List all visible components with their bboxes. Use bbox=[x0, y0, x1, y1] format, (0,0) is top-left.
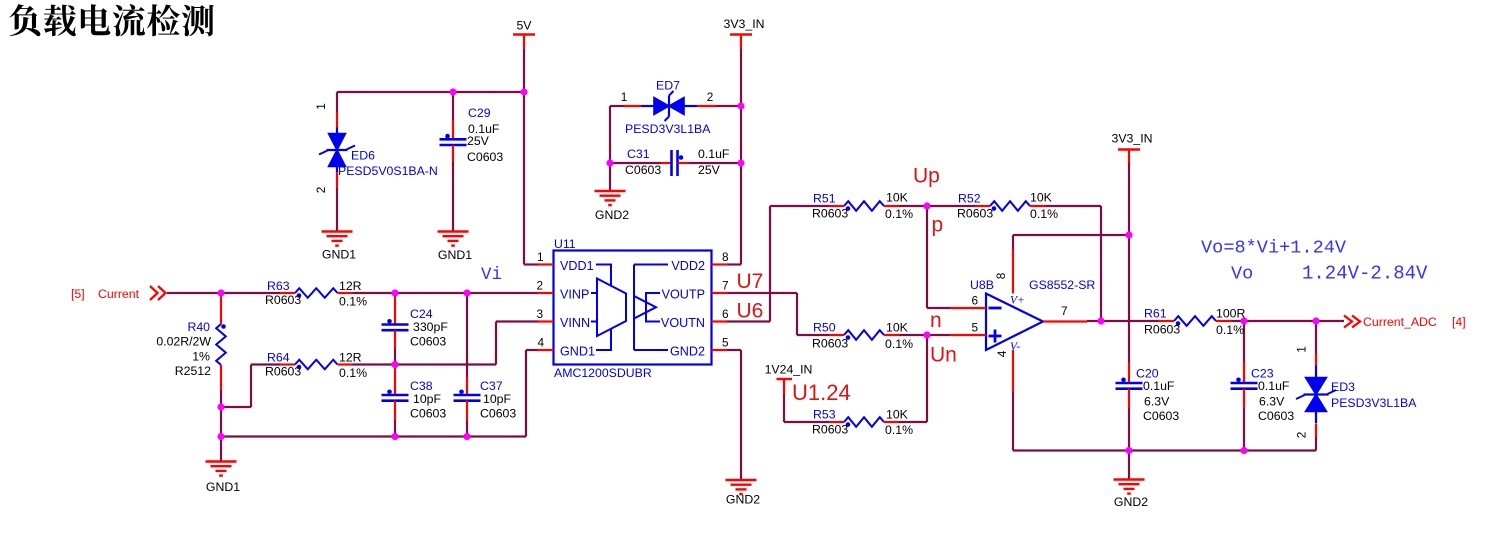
wire GND1 bottom rail bbox=[221, 435, 526, 437]
wire U11 pin5 to GND2 bbox=[727, 349, 741, 351]
svg-text:U7: U7 bbox=[737, 270, 764, 293]
wire R53 to 1V24_IN bbox=[784, 421, 829, 423]
svg-text:10K: 10K bbox=[886, 321, 909, 335]
svg-text:R50: R50 bbox=[813, 321, 836, 335]
ground GND1 under R40 bbox=[220, 437, 222, 462]
svg-text:C37: C37 bbox=[480, 379, 503, 393]
svg-text:VINN: VINN bbox=[560, 316, 590, 330]
resistor R50 bbox=[829, 334, 844, 336]
wire R64 left L bbox=[221, 406, 251, 408]
svg-text:5: 5 bbox=[722, 336, 729, 350]
resistor R61 bbox=[1158, 320, 1174, 322]
svg-text:GND1: GND1 bbox=[206, 480, 240, 494]
svg-text:10pF: 10pF bbox=[413, 392, 442, 406]
svg-text:[4]: [4] bbox=[1452, 315, 1466, 329]
wire R52 row from Up node bbox=[927, 205, 975, 207]
wire opamp pin4 to GND2 rail bbox=[1012, 392, 1014, 451]
capacitor C31 bbox=[661, 162, 672, 164]
wire n node to opamp pin5 bbox=[927, 334, 950, 336]
svg-text:U1.24: U1.24 bbox=[792, 380, 851, 405]
wire ED3 column bbox=[1315, 321, 1317, 353]
svg-text:R0603: R0603 bbox=[812, 423, 848, 437]
svg-text:VDD1: VDD1 bbox=[560, 259, 594, 273]
power 3V3_IN right bbox=[1118, 148, 1140, 151]
svg-text:V+: V+ bbox=[1010, 295, 1025, 307]
wire R52 to feedback drop bbox=[1046, 205, 1101, 207]
svg-text:R0603: R0603 bbox=[812, 207, 848, 221]
svg-text:25V: 25V bbox=[467, 134, 490, 148]
svg-text:2: 2 bbox=[536, 279, 543, 293]
svg-text:PESD3V3L1BA: PESD3V3L1BA bbox=[625, 122, 711, 136]
wire C29 top bbox=[452, 92, 454, 120]
wire ED7 pin1 drop to C31 bbox=[610, 105, 624, 107]
svg-text:GND2: GND2 bbox=[670, 345, 705, 359]
svg-text:[5]: [5] bbox=[71, 287, 85, 301]
svg-text:GND1: GND1 bbox=[438, 248, 472, 262]
svg-text:10K: 10K bbox=[886, 408, 909, 422]
svg-text:C0603: C0603 bbox=[410, 407, 446, 421]
wire R61 to Current_ADC bbox=[1232, 320, 1344, 322]
svg-text:GND2: GND2 bbox=[595, 208, 629, 222]
svg-text:7: 7 bbox=[722, 279, 729, 293]
svg-text:Vi: Vi bbox=[481, 265, 502, 285]
wire U11 pin7 U7 to R50 bbox=[727, 292, 797, 294]
junction n node bbox=[923, 331, 930, 338]
svg-text:3V3_IN: 3V3_IN bbox=[1111, 132, 1152, 146]
wire C24 link bbox=[394, 348, 396, 365]
svg-text:R51: R51 bbox=[813, 192, 836, 206]
svg-text:U8B: U8B bbox=[970, 278, 994, 292]
wire U11 pin6 U6 to R51 bbox=[727, 320, 770, 322]
capacitor C23 bbox=[1243, 362, 1245, 383]
svg-text:R0603: R0603 bbox=[265, 365, 301, 379]
wire Current input to R63 bbox=[167, 292, 280, 294]
svg-text:4: 4 bbox=[537, 336, 544, 350]
svg-text:VDD2: VDD2 bbox=[671, 259, 705, 273]
wire 3V3 to opamp V+ bbox=[1128, 163, 1130, 235]
power 3V3_IN top bbox=[730, 33, 752, 36]
wire ED6 bottom to GND1 bbox=[336, 188, 338, 232]
diode ED3 PESD3V3L1BA bbox=[1315, 353, 1317, 366]
svg-text:0.1%: 0.1% bbox=[885, 337, 913, 351]
svg-text:2: 2 bbox=[707, 90, 714, 104]
svg-text:R64: R64 bbox=[267, 351, 290, 365]
svg-text:6: 6 bbox=[971, 294, 978, 308]
svg-text:VINP: VINP bbox=[560, 288, 589, 302]
svg-text:C0603: C0603 bbox=[410, 335, 446, 349]
diode ED6 PESD5V0S1BA-N bbox=[336, 112, 338, 128]
svg-text:R0603: R0603 bbox=[265, 293, 301, 307]
svg-text:6.3V: 6.3V bbox=[1144, 395, 1170, 409]
svg-text:GS8552-SR: GS8552-SR bbox=[1029, 278, 1095, 292]
port Current_ADC [4] bbox=[1344, 316, 1352, 328]
svg-text:0.1%: 0.1% bbox=[885, 423, 913, 437]
svg-text:1: 1 bbox=[314, 103, 328, 110]
wire 5V vertical to U11 pin1 bbox=[523, 49, 525, 265]
svg-text:R53: R53 bbox=[813, 408, 836, 422]
junction GND2 rail bbox=[1125, 447, 1132, 454]
svg-text:0.02R/2W: 0.02R/2W bbox=[156, 335, 211, 349]
capacitor C38 bbox=[394, 367, 396, 395]
junction 3V3 ED7 bbox=[737, 102, 744, 109]
svg-text:VOUTP: VOUTP bbox=[662, 288, 705, 302]
svg-text:8: 8 bbox=[722, 250, 729, 264]
ground GND2 under opamp rail bbox=[1128, 451, 1130, 480]
ground GND2 under C31 bbox=[595, 190, 626, 192]
svg-text:R52: R52 bbox=[958, 192, 981, 206]
wire R50 to n node bbox=[899, 334, 927, 336]
wire 3V3_IN drop to ED7 pin2 bbox=[740, 49, 742, 106]
wire R40 bottom bbox=[220, 390, 222, 437]
svg-text:1%: 1% bbox=[192, 350, 210, 364]
wire R51 to Up node bbox=[899, 205, 927, 207]
op-amp U8B GS8552-SR bbox=[986, 294, 1043, 351]
svg-text:GND1: GND1 bbox=[322, 248, 356, 262]
svg-text:ED6: ED6 bbox=[351, 149, 375, 163]
svg-text:10K: 10K bbox=[886, 191, 909, 205]
power 1V24_IN bbox=[777, 378, 793, 381]
junction R40 bottom bbox=[217, 403, 224, 410]
svg-text:0.1%: 0.1% bbox=[885, 207, 913, 221]
wire GND2 bottom rail bbox=[1013, 449, 1316, 451]
svg-text:C38: C38 bbox=[410, 379, 433, 393]
svg-text:n: n bbox=[930, 309, 942, 332]
svg-text:ED3: ED3 bbox=[1331, 380, 1355, 394]
svg-text:Vo=8*Vi+1.24V: Vo=8*Vi+1.24V bbox=[1201, 238, 1347, 259]
svg-text:10K: 10K bbox=[1030, 191, 1053, 205]
wire C31 right column bbox=[689, 162, 741, 164]
resistor R64 bbox=[280, 363, 295, 365]
wire R63 to U11 pin2 bbox=[353, 292, 540, 294]
svg-text:R0603: R0603 bbox=[812, 337, 848, 351]
junction GND1 rail bbox=[217, 433, 224, 440]
junction Current input bbox=[217, 289, 224, 296]
svg-text:C0603: C0603 bbox=[480, 407, 516, 421]
svg-text:25V: 25V bbox=[698, 163, 721, 177]
wire 5V rail to ED6/C29 bbox=[337, 91, 524, 93]
svg-text:C0603: C0603 bbox=[1258, 409, 1294, 423]
junction C24 top bbox=[391, 289, 398, 296]
resistor R40 bbox=[220, 297, 222, 325]
svg-text:ED7: ED7 bbox=[656, 79, 680, 93]
svg-text:C0603: C0603 bbox=[625, 163, 661, 177]
svg-text:12R: 12R bbox=[339, 279, 362, 293]
resistor R51 bbox=[829, 205, 844, 207]
svg-text:1.24V-2.84V: 1.24V-2.84V bbox=[1302, 263, 1428, 285]
wire n node to R53 bbox=[926, 335, 928, 422]
svg-text:6: 6 bbox=[722, 307, 729, 321]
svg-text:VOUTN: VOUTN bbox=[661, 316, 705, 330]
svg-text:1: 1 bbox=[621, 90, 628, 104]
svg-text:0.1uF: 0.1uF bbox=[1143, 379, 1175, 393]
svg-text:R63: R63 bbox=[267, 279, 290, 293]
svg-text:0.1%: 0.1% bbox=[1216, 323, 1244, 337]
svg-text:PESD3V3L1BA: PESD3V3L1BA bbox=[1331, 396, 1417, 410]
svg-text:Up: Up bbox=[913, 165, 940, 188]
svg-text:C24: C24 bbox=[410, 307, 433, 321]
junction Up node bbox=[923, 202, 930, 209]
capacitor C24 bbox=[394, 296, 396, 325]
wire C20 column bbox=[1128, 235, 1130, 362]
svg-text:C31: C31 bbox=[627, 147, 650, 161]
svg-text:R2512: R2512 bbox=[175, 364, 211, 378]
diode ED7 PESD3V3L1BA bbox=[624, 105, 641, 107]
svg-text:U11: U11 bbox=[554, 237, 576, 251]
svg-text:C0603: C0603 bbox=[467, 150, 503, 164]
svg-text:Current_ADC: Current_ADC bbox=[1363, 315, 1437, 329]
svg-text:0.1uF: 0.1uF bbox=[698, 147, 730, 161]
svg-text:6.3V: 6.3V bbox=[1259, 395, 1285, 409]
svg-text:C29: C29 bbox=[468, 106, 491, 120]
wire rail to U11 pin4 bbox=[525, 350, 527, 437]
junction C37 top bbox=[463, 289, 470, 296]
power 5V bbox=[513, 33, 535, 36]
svg-text:2: 2 bbox=[314, 187, 328, 194]
svg-text:3V3_IN: 3V3_IN bbox=[723, 17, 764, 31]
ground GND1 under C29 bbox=[438, 230, 469, 232]
svg-text:Un: Un bbox=[930, 344, 957, 367]
junction ED3 output bbox=[1312, 317, 1319, 324]
wire ED7 pin2 to 3V3 node bbox=[716, 105, 741, 107]
svg-text:GND1: GND1 bbox=[560, 345, 595, 359]
wire ED6 top bbox=[336, 92, 338, 112]
junction VINN row bbox=[391, 361, 398, 368]
svg-text:7: 7 bbox=[1061, 304, 1068, 318]
svg-text:GND2: GND2 bbox=[726, 493, 760, 507]
title 负载电流检测 bbox=[9, 4, 213, 36]
svg-text:R61: R61 bbox=[1144, 307, 1167, 321]
svg-text:PESD5V0S1BA-N: PESD5V0S1BA-N bbox=[338, 164, 438, 178]
capacitor C37 bbox=[466, 377, 468, 395]
svg-text:0.1uF: 0.1uF bbox=[1258, 379, 1290, 393]
resistor R52 bbox=[975, 205, 990, 207]
svg-text:p: p bbox=[932, 214, 944, 237]
svg-text:2: 2 bbox=[1295, 432, 1309, 439]
svg-text:1: 1 bbox=[1295, 346, 1309, 353]
svg-text:R0603: R0603 bbox=[957, 207, 993, 221]
svg-text:V-: V- bbox=[1010, 341, 1020, 353]
svg-text:Current: Current bbox=[98, 287, 140, 301]
svg-text:100R: 100R bbox=[1216, 307, 1246, 321]
svg-text:1V24_IN: 1V24_IN bbox=[765, 363, 813, 377]
junction C31 bbox=[606, 159, 613, 166]
svg-text:8: 8 bbox=[994, 272, 1008, 279]
svg-text:1: 1 bbox=[537, 250, 544, 264]
svg-text:0.1%: 0.1% bbox=[339, 295, 367, 309]
op-amp U11 AMC1200SDUBR bbox=[554, 251, 712, 365]
wire C37 top column bbox=[466, 293, 468, 377]
svg-text:GND2: GND2 bbox=[1114, 495, 1148, 509]
svg-text:C0603: C0603 bbox=[1143, 409, 1179, 423]
junction C23 output bbox=[1240, 317, 1247, 324]
svg-text:R40: R40 bbox=[187, 320, 210, 334]
svg-text:3: 3 bbox=[536, 307, 543, 321]
wire opamp output row bbox=[1087, 320, 1158, 322]
resistor R53 bbox=[829, 421, 844, 423]
svg-text:4: 4 bbox=[995, 350, 1009, 357]
ground GND1 under ED6 bbox=[322, 230, 353, 232]
wire R64 to VINN jog bbox=[353, 363, 497, 365]
junction 3V3 opamp bbox=[1125, 231, 1132, 238]
svg-text:0.1%: 0.1% bbox=[1030, 207, 1058, 221]
wire C29 bottom to GND1 bbox=[452, 162, 454, 232]
wire 3V3 column to U11 pin8 bbox=[740, 163, 742, 265]
ground GND2 under U11 pin5 bbox=[726, 479, 757, 481]
capacitor C29 bbox=[452, 120, 454, 139]
wire Up node to opamp pin6 bbox=[926, 206, 928, 308]
wire C23 column bbox=[1243, 321, 1245, 362]
capacitor C20 bbox=[1128, 362, 1130, 383]
svg-text:AMC1200SDUBR: AMC1200SDUBR bbox=[554, 366, 652, 380]
svg-text:5: 5 bbox=[971, 321, 978, 335]
svg-text:0.1%: 0.1% bbox=[339, 366, 367, 380]
svg-text:330pF: 330pF bbox=[413, 320, 448, 334]
wire C31 left to GND2 bbox=[610, 162, 661, 164]
junction 5V rail bbox=[449, 88, 456, 95]
svg-text:Vo: Vo bbox=[1231, 264, 1253, 285]
svg-text:5V: 5V bbox=[516, 19, 532, 33]
svg-text:12R: 12R bbox=[339, 351, 362, 365]
junction output feedback bbox=[1097, 317, 1104, 324]
svg-text:U6: U6 bbox=[737, 300, 764, 323]
svg-text:R0603: R0603 bbox=[1144, 323, 1180, 337]
svg-text:10pF: 10pF bbox=[483, 392, 512, 406]
resistor R63 bbox=[280, 292, 295, 294]
